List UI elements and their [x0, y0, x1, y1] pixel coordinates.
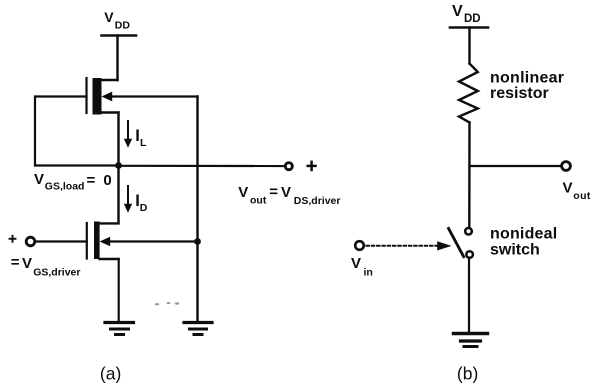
svg-text:GS,driver: GS,driver [33, 267, 80, 279]
bulk arrow [102, 92, 113, 102]
svg-text:V: V [281, 184, 291, 201]
wire bulk/substrate vertical line to ground [196, 97, 198, 323]
channel bar [93, 78, 102, 115]
svg-text:V: V [452, 3, 463, 20]
label = VGS,driver [11, 254, 81, 279]
switch blade [449, 229, 464, 257]
switch bottom contact [466, 251, 473, 258]
wire dashed control arrow Vin to switch [367, 241, 452, 250]
svg-text:V: V [351, 255, 361, 272]
node output terminal (b) [562, 162, 571, 171]
svg-text:nonideal: nonideal [490, 226, 557, 243]
svg-text:out: out [250, 195, 267, 207]
svg-text:V: V [34, 171, 44, 188]
svg-text:in: in [364, 267, 373, 279]
svg-text:=: = [11, 254, 20, 271]
svg-text:D: D [140, 202, 148, 214]
gate line [86, 223, 88, 259]
bulk arrow [100, 237, 111, 247]
switch top contact [465, 228, 472, 235]
svg-text:GS,load: GS,load [45, 181, 85, 193]
gate line [85, 78, 87, 113]
ground (b) [454, 334, 488, 347]
power supply VDD rail symbol (a) [102, 34, 137, 37]
transistor M2 (driver NMOS) [87, 222, 119, 260]
label VGS,load = 0 [34, 171, 114, 193]
source lead [100, 258, 119, 260]
wire VDD to load drain [116, 36, 118, 81]
svg-text:nonlinear: nonlinear [490, 70, 564, 87]
svg-text:DS,driver: DS,driver [294, 195, 341, 207]
node VDD label (a) [104, 9, 130, 32]
svg-text:L: L [140, 137, 147, 149]
source lead [102, 111, 119, 113]
label nonlinear resistor [490, 70, 564, 103]
wire output node to terminal [119, 165, 286, 167]
node junction dot on substrate line [194, 238, 201, 245]
node output junction dot [115, 162, 122, 169]
wire input terminal to gate of M2 [35, 240, 87, 242]
drain lead [100, 222, 119, 224]
wire gate feedback (gate of M1 to output node) [35, 97, 115, 166]
current arrow ID [124, 186, 148, 214]
svg-text:V: V [104, 9, 114, 25]
svg-text:V: V [22, 255, 32, 272]
label Vout = VDS,driver [238, 184, 340, 208]
node plus sign at output (a) [308, 162, 316, 170]
svg-text:= 0: = 0 [87, 172, 114, 189]
svg-text:switch: switch [490, 242, 540, 259]
svg-text:DD: DD [464, 13, 481, 25]
label nonideal switch [490, 226, 557, 259]
node VDD label (b) [452, 3, 481, 25]
wire driver source to ground [118, 259, 120, 322]
wire output tap (b) [470, 165, 562, 167]
ground (driver source) [105, 323, 134, 335]
wire bulk of M1 to ground line [110, 95, 198, 97]
node output terminal (a) [285, 163, 292, 170]
transistor M1 (load NMOS) [87, 78, 119, 115]
svg-text:(b): (b) [457, 364, 478, 384]
ground (substrate line) [184, 323, 212, 335]
node Vin terminal [355, 241, 364, 250]
current arrow IL [124, 121, 147, 149]
resistor R1 (nonlinear resistor) [459, 64, 478, 123]
svg-text:V: V [563, 180, 573, 197]
node input terminal (a) [26, 237, 35, 246]
node plus sign at input (a) [10, 236, 16, 242]
svg-text:=: = [269, 184, 278, 201]
power supply VDD rail symbol (b) [450, 26, 488, 29]
wire switch to ground (b) [468, 259, 470, 334]
label Vin [351, 255, 373, 279]
drain lead [102, 79, 118, 81]
switch S1 (nonideal switch) [449, 228, 473, 258]
wire load source to output node to driver drain [117, 113, 119, 224]
svg-text:V: V [238, 184, 248, 201]
svg-text:DD: DD [115, 20, 131, 32]
svg-text:resistor: resistor [490, 85, 549, 102]
wire VDD to resistor [468, 28, 470, 64]
svg-text:(a): (a) [100, 364, 121, 384]
scan speckles [155, 302, 179, 305]
label Vout (b) [563, 180, 591, 203]
svg-text:out: out [573, 190, 591, 202]
wire bulk of M2 to ground line [109, 240, 198, 242]
channel bar [94, 222, 100, 260]
wire resistor to switch [468, 123, 471, 227]
